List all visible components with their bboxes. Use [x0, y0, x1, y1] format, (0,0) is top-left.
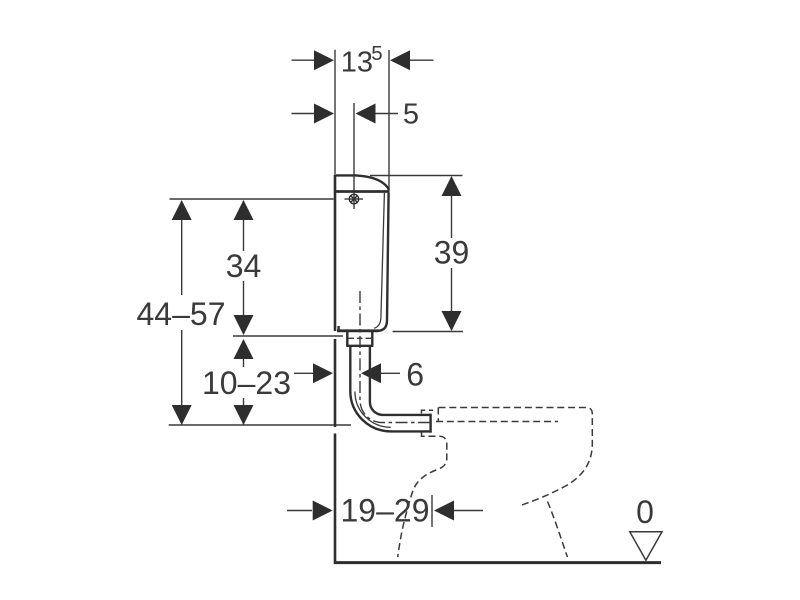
svg-text:6: 6	[406, 357, 424, 393]
svg-text:13: 13	[341, 47, 373, 79]
svg-text:39: 39	[434, 234, 470, 270]
svg-text:5: 5	[371, 42, 382, 65]
svg-text:44–57: 44–57	[137, 296, 226, 332]
svg-text:10–23: 10–23	[202, 365, 291, 401]
svg-text:34: 34	[226, 248, 262, 284]
svg-text:0: 0	[636, 494, 654, 530]
svg-text:5: 5	[403, 98, 419, 130]
svg-text:19–29: 19–29	[341, 493, 430, 529]
